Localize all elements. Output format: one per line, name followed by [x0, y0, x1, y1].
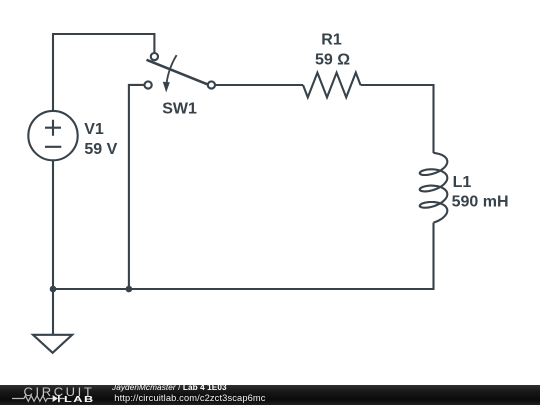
wire V1 bottom to ground rail — [52, 160, 54, 334]
switch terminal throw — [208, 81, 215, 88]
resistor R1 — [303, 73, 361, 98]
footer title — [112, 384, 227, 392]
svg-text:59 Ω: 59 Ω — [315, 52, 350, 69]
footer url — [114, 394, 265, 403]
junction node A — [50, 286, 57, 293]
footer bar — [0, 385, 540, 405]
wire switch pole left then down — [129, 85, 144, 289]
switch terminal pole — [145, 81, 152, 88]
wire resistor to inductor top — [361, 85, 434, 153]
switch SW1 blade — [147, 60, 208, 85]
circuitlab logo — [24, 385, 95, 399]
switch terminal top — [151, 53, 158, 60]
svg-text:R1: R1 — [321, 32, 342, 49]
svg-text:L1: L1 — [453, 174, 472, 191]
svg-text:59 V: 59 V — [84, 141, 117, 158]
switch arrowhead — [163, 82, 170, 93]
inductor L1 — [420, 153, 448, 223]
wire top-left horizontal — [53, 34, 154, 111]
wire inductor bottom to ground rail — [53, 223, 434, 289]
voltage source V1 — [28, 111, 77, 160]
ground — [33, 335, 72, 353]
svg-text:SW1: SW1 — [162, 101, 197, 118]
wire switch throw to resistor — [215, 84, 303, 86]
junction node B — [126, 286, 133, 293]
svg-text:590 mH: 590 mH — [452, 193, 509, 210]
switch SW1 arc arrow — [166, 55, 176, 87]
svg-text:V1: V1 — [84, 121, 104, 138]
